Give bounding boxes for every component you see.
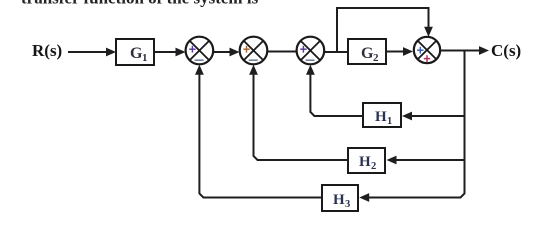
wire H2 to S2 with up arrowhead bbox=[254, 73, 349, 160]
svg-text:R(s): R(s) bbox=[32, 41, 62, 60]
svg-text:1: 1 bbox=[387, 116, 392, 127]
summing junction S4 bbox=[414, 37, 440, 63]
svg-text:transfer function of the syste: transfer function of the system is bbox=[21, 0, 259, 8]
svg-text:2: 2 bbox=[373, 52, 379, 64]
wire S4 to C(s) with arrowhead bbox=[440, 46, 489, 55]
wire feedback trunk down from output takeoff bbox=[368, 51, 465, 198]
svg-text:H: H bbox=[375, 109, 387, 125]
block H1 bbox=[363, 103, 401, 127]
block H3 bbox=[322, 185, 358, 211]
wire trunk branch to H1 with arrowhead bbox=[402, 112, 465, 121]
svg-text:C(s): C(s) bbox=[491, 41, 521, 60]
S3 plus sign bbox=[300, 46, 306, 53]
wire G1 to summing junction S1 with arrowhead bbox=[154, 48, 186, 57]
wire trunk branch to H2 with arrowhead bbox=[387, 156, 465, 165]
svg-text:3: 3 bbox=[345, 199, 350, 210]
S1 plus sign bbox=[189, 46, 195, 53]
wire H3 to S1 with up arrowhead bbox=[199, 73, 322, 198]
wire S2 to S3 bbox=[267, 51, 296, 53]
S4 bottom plus sign bbox=[424, 55, 430, 62]
block H2 bbox=[348, 148, 385, 173]
svg-text:1: 1 bbox=[142, 52, 148, 64]
wire S1 to S2 with arrowhead bbox=[213, 48, 239, 57]
svg-text:2: 2 bbox=[371, 161, 376, 172]
S2 plus sign bbox=[243, 46, 249, 53]
svg-text:H: H bbox=[359, 154, 371, 170]
block G2 bbox=[348, 39, 386, 64]
wire G2 to S4 with arrowhead bbox=[386, 47, 413, 56]
summing junction S1 bbox=[186, 37, 214, 65]
S2 minus sign bbox=[249, 59, 258, 61]
wire arrowhead into H3 bbox=[359, 193, 369, 202]
svg-text:H: H bbox=[333, 192, 345, 208]
summing junction S3 bbox=[297, 37, 325, 65]
wire S3 to G2 bbox=[324, 51, 348, 53]
S1 minus sign bbox=[195, 59, 204, 61]
S4 left plus sign bbox=[417, 47, 423, 54]
wire R(s) to G1 with arrowhead bbox=[68, 48, 116, 57]
wire feedforward bypass over G2 to S4 with down arrowhead bbox=[337, 8, 429, 52]
block G1 bbox=[116, 39, 154, 65]
summing junction S2 bbox=[240, 37, 268, 65]
wire H1 to S3 with up arrowhead bbox=[310, 73, 363, 116]
S3 minus sign bbox=[306, 59, 315, 61]
